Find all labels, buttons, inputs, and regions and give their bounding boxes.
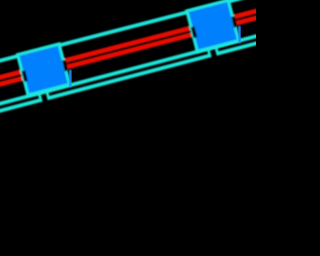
pad left of U1 xyxy=(22,70,28,82)
component U1 courtyard border (cyan) xyxy=(16,42,72,97)
wire: jog riser left of notch 2 xyxy=(206,47,211,58)
wire: red trace 1 segment 3 xyxy=(234,5,271,19)
wire: red trace 2 segment 1 xyxy=(0,76,23,91)
pad left of U2 xyxy=(191,26,197,38)
pad right of U2 xyxy=(231,16,237,28)
wire: jog riser right of notch 2 xyxy=(214,45,219,56)
wire: strip top edge (cyan) xyxy=(0,0,267,69)
component U2 courtyard border (cyan) xyxy=(185,0,241,53)
component U1 body (blue) xyxy=(20,46,68,93)
wire: jog riser right of notch 1 xyxy=(45,89,50,100)
wire: red trace 1 segment 1 xyxy=(0,70,21,85)
via/tick right of U1 (blue, screen-vertical) xyxy=(69,70,72,87)
via/tick right of U2 (blue, screen-vertical) xyxy=(238,26,241,43)
wire: outline B segment 2 xyxy=(48,54,210,100)
wire: red trace 2 segment 2 xyxy=(66,32,192,69)
pad right of U1 xyxy=(62,60,68,72)
wire: red trace 1 segment 2 xyxy=(64,26,190,63)
wire: red trace 2 segment 3 xyxy=(235,12,272,26)
wire: outline B segment 1 xyxy=(0,98,41,116)
wire: strip lower edge A (cyan) xyxy=(0,29,277,109)
wire: outline B segment 3 xyxy=(217,36,279,56)
wire: jog riser left of notch 1 xyxy=(37,91,42,102)
component U2 body (blue) xyxy=(189,2,237,49)
